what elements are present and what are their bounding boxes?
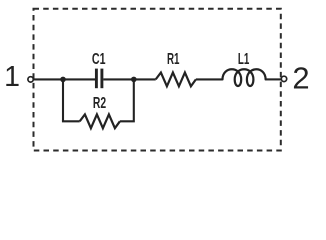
wire: node B to R1 xyxy=(134,78,156,80)
node B junction dot xyxy=(131,77,137,83)
resistor R2 (zigzag) xyxy=(80,114,120,128)
wire: port 1 to node A xyxy=(34,78,63,80)
resistor R1 (zigzag) xyxy=(156,73,196,87)
svg-text:1: 1 xyxy=(4,61,20,93)
wire: node A to C1 left plate xyxy=(63,78,95,80)
svg-text:C1: C1 xyxy=(92,51,106,68)
terminal port 2 (open circle) xyxy=(281,76,286,81)
svg-text:L1: L1 xyxy=(238,51,250,68)
capacitor C1 xyxy=(96,69,102,89)
wire: node A down to R2 branch xyxy=(62,79,64,121)
node A junction dot xyxy=(60,77,66,83)
svg-text:2: 2 xyxy=(292,61,309,96)
inductor L1 (coil) xyxy=(223,69,266,86)
dashed network boundary box xyxy=(34,9,281,151)
wire: C1 right plate to node B xyxy=(103,78,134,80)
wire: L1 to port 2 xyxy=(266,78,281,80)
svg-text:R1: R1 xyxy=(167,51,180,68)
terminal port 1 (open circle) xyxy=(28,77,33,82)
wire: R1 to L1 xyxy=(196,78,223,80)
svg-text:R2: R2 xyxy=(93,95,106,112)
wire: R2 branch bottom right segment up to node B xyxy=(120,80,134,121)
wire: R2 branch bottom left segment xyxy=(63,120,80,121)
